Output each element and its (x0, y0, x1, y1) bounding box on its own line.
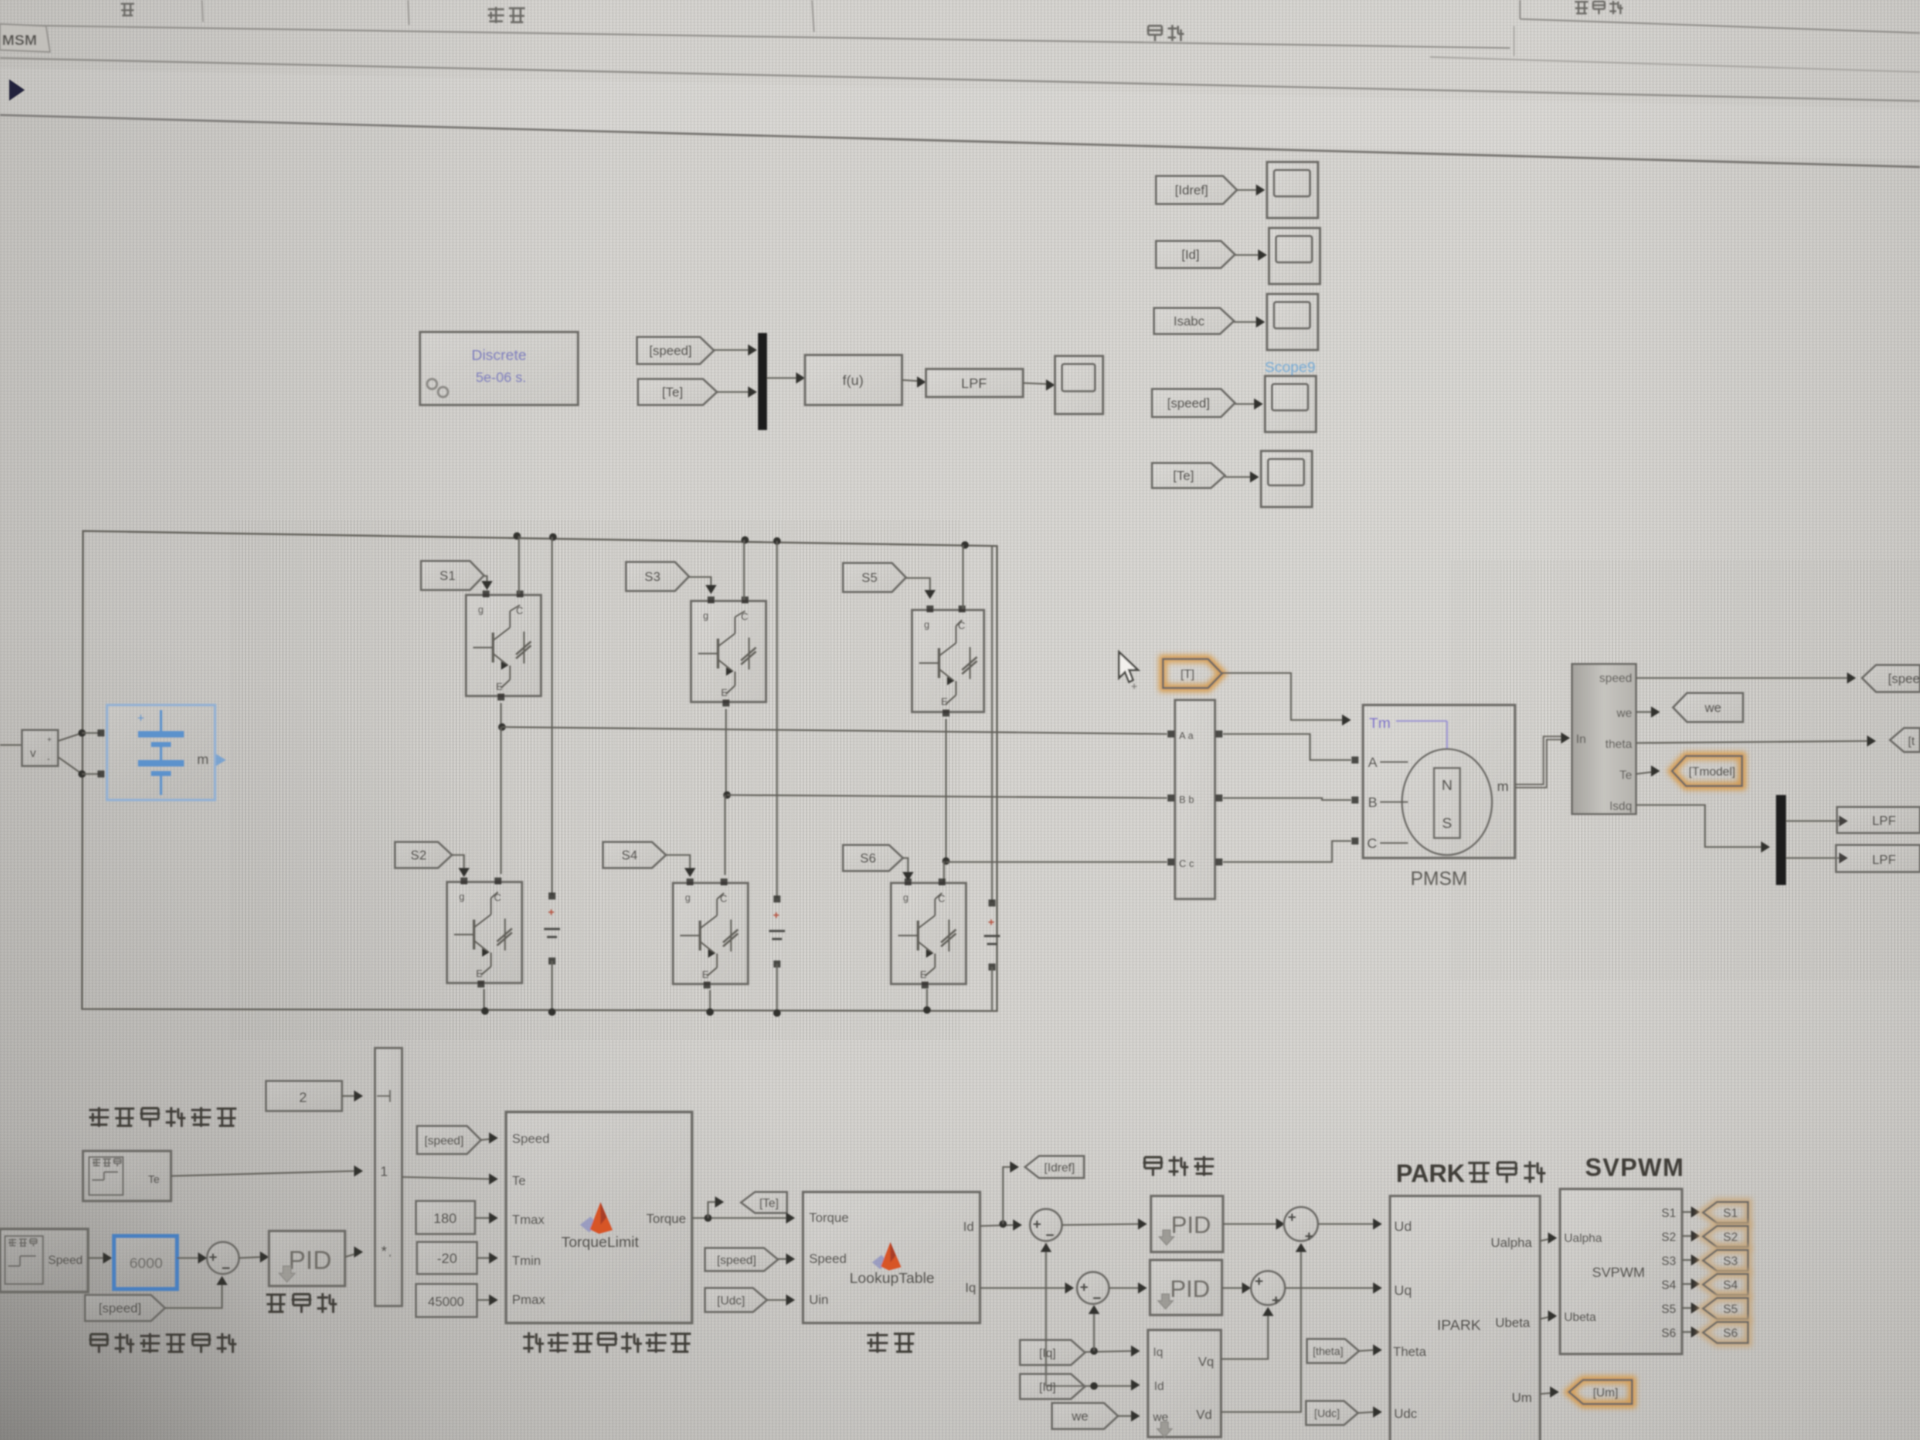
goto tag S6 (1703, 1322, 1748, 1343)
svg-text:+: + (988, 917, 994, 929)
svg-text:v: v (30, 746, 36, 760)
svg-text:[Udc]: [Udc] (1314, 1408, 1340, 1420)
svg-text:S4: S4 (1723, 1278, 1738, 1292)
svg-text:B: B (1368, 794, 1377, 810)
svg-text:[Udc]: [Udc] (717, 1293, 745, 1307)
wire Vd to sum3 (1221, 1249, 1301, 1412)
svg-text:S3: S3 (645, 569, 661, 584)
wire emitter S4 to bottom bus (709, 990, 711, 1012)
wire speed ref to constant (88, 1257, 104, 1259)
ribbon separator lines (0, 25, 1510, 48)
from tag [theta] (1307, 1339, 1359, 1363)
from tag [Te] (1152, 463, 1225, 488)
wire we out (1636, 711, 1652, 713)
wire emitter S1 to phase A node (500, 703, 502, 727)
svg-text:5e-06 s.: 5e-06 s. (476, 369, 527, 385)
svg-text:Tmin: Tmin (512, 1253, 541, 1268)
from tag [speed] to torquelimit (417, 1126, 481, 1154)
svg-text:LPF: LPF (1872, 813, 1896, 828)
wire 2 to switch (342, 1095, 355, 1097)
svg-text:S1: S1 (1661, 1206, 1676, 1220)
run button (9, 79, 25, 101)
constant block 6000 selected (114, 1236, 177, 1289)
wire Isdq to demux (1636, 805, 1762, 847)
wire into voltage sensor (0, 744, 22, 746)
wire Id to sum1 (980, 1225, 1014, 1226)
wire b to PMSM B (1223, 798, 1351, 800)
transfer block LPF 1 (1837, 807, 1920, 833)
ribbon tab label 库 (121, 3, 134, 5)
svg-text:PID: PID (288, 1245, 331, 1275)
wire sum3 to IPARK Ud (1318, 1223, 1374, 1225)
from tag S5 (843, 563, 906, 592)
svg-text:g: g (685, 893, 691, 904)
IGBT S5 (912, 610, 984, 712)
wire demux to LPF2 (1786, 857, 1840, 859)
transfer block LPF (926, 369, 1023, 397)
wire S6 out (1682, 1331, 1692, 1333)
wire phase C (946, 861, 1167, 863)
constant block -20 (417, 1242, 477, 1274)
from tag S2 (395, 842, 452, 868)
svg-text:PID: PID (1171, 1212, 1211, 1239)
svg-text:theta: theta (1605, 737, 1632, 751)
svg-text:[speed]: [speed] (424, 1133, 463, 1147)
from tag [T] highlighted (1163, 659, 1222, 688)
goto tag theta partial right edge (1890, 728, 1920, 752)
PID controller speed loop (269, 1231, 345, 1286)
svg-text:Ualpha: Ualpha (1491, 1235, 1533, 1250)
svg-text:Vq: Vq (1198, 1354, 1214, 1369)
svg-text:S4: S4 (1661, 1278, 1676, 1292)
from tag we (1052, 1403, 1118, 1429)
from tag [Idref] (1156, 176, 1237, 204)
IGBT S4 (673, 883, 748, 984)
wire to scope (1237, 189, 1257, 191)
svg-text:SVPWM: SVPWM (1592, 1264, 1645, 1280)
svg-text:we: we (1616, 706, 1633, 720)
svg-text:6000: 6000 (129, 1255, 162, 1272)
goto tag [speed] partial right edge (1862, 665, 1920, 692)
wire collector S5 to bus (962, 545, 964, 609)
wire S3 out (1682, 1259, 1692, 1261)
svg-text:S5: S5 (1723, 1302, 1738, 1316)
svg-text:[speed]: [speed] (99, 1301, 142, 1316)
svg-text:2: 2 (299, 1089, 307, 1105)
svg-text:Discrete: Discrete (471, 347, 526, 364)
IPARK block (1390, 1196, 1540, 1440)
svg-text:S2: S2 (411, 848, 427, 863)
svg-text:[Te]: [Te] (759, 1196, 778, 1210)
dc link capacitor leg3 (991, 546, 993, 902)
three-phase VI measurement block (1175, 700, 1215, 899)
label torque power limit (523, 1336, 535, 1338)
svg-text:-: - (47, 754, 50, 764)
from tag [speed] (1152, 389, 1235, 417)
svg-text:[Id]: [Id] (1039, 1380, 1056, 1394)
svg-text:[spee: [spee (1888, 671, 1920, 686)
wire to scope (1225, 476, 1251, 478)
svg-text:g: g (478, 605, 484, 616)
wire Te out (1636, 772, 1652, 774)
sum junction Uq (1251, 1271, 1285, 1305)
svg-text:we: we (1704, 700, 1722, 715)
svg-text:Ubeta: Ubeta (1564, 1310, 1596, 1324)
wire S5 out (1682, 1307, 1692, 1309)
svg-text:[Te]: [Te] (662, 385, 683, 400)
from tag [Id] (1020, 1374, 1085, 1399)
wire emitter S6 to bottom bus (926, 989, 928, 1010)
wire [T] to Tm (1222, 673, 1344, 720)
svg-text:+: + (1288, 1209, 1297, 1226)
scope block (1269, 228, 1320, 284)
wire to scope (1234, 321, 1257, 323)
wire S4 out (1682, 1283, 1692, 1285)
MATLAB function LookupTable (803, 1192, 980, 1323)
wire v to bus + (58, 733, 82, 741)
svg-text:S: S (1442, 815, 1452, 832)
svg-text:PMSM: PMSM (1411, 869, 1468, 890)
wire mux to f(u) (767, 377, 797, 379)
junction top bus (513, 532, 521, 540)
svg-text:S4: S4 (622, 848, 638, 863)
torque reference source block (83, 1151, 171, 1201)
wire a to PMSM A (1223, 734, 1351, 760)
svg-text:N: N (1442, 777, 1453, 794)
svg-text:*: * (381, 1243, 387, 1260)
svg-text:C: C (1367, 835, 1377, 851)
svg-text:A: A (1368, 754, 1378, 770)
wire phase B node to S4 collector (724, 795, 726, 875)
from tag [speed] (637, 337, 714, 364)
svg-text:Pmax: Pmax (512, 1292, 546, 1307)
wire phase A (502, 727, 1167, 734)
wire LPF to scope (1023, 383, 1047, 384)
mux bar (758, 333, 767, 430)
svg-text:Ubeta: Ubeta (1495, 1315, 1530, 1330)
svg-text:Te: Te (1619, 768, 1632, 782)
svg-text:Theta: Theta (1393, 1344, 1427, 1359)
svg-text:S6: S6 (1723, 1326, 1738, 1340)
IGBT S3 (691, 601, 766, 702)
wire switch out to Te port (402, 1177, 490, 1179)
PMSM machine block (1363, 705, 1515, 858)
from tag [Udc] to ipark (1306, 1401, 1358, 1425)
ribbon tab label 检查器 (1575, 1, 1588, 3)
wire emitter S2 to bottom bus (483, 989, 485, 1011)
svg-text:LookupTable: LookupTable (849, 1270, 934, 1287)
svg-text:g: g (903, 893, 909, 904)
wire to scope (1235, 403, 1255, 405)
svg-text:m: m (1497, 778, 1509, 794)
svg-text:Id: Id (1154, 1379, 1164, 1393)
wire S2 to gate (452, 855, 464, 870)
svg-text:S3: S3 (1661, 1254, 1676, 1268)
ribbon tab label 仿真 (1148, 25, 1162, 27)
label current loop (1145, 1156, 1162, 1158)
sum junction Ud (1284, 1207, 1318, 1241)
svg-text:+: + (1305, 1228, 1314, 1245)
wire S4 to gate (666, 855, 690, 870)
goto tag we (1673, 693, 1743, 722)
from tag [Iq] (1020, 1340, 1085, 1365)
dc link capacitor leg1 (551, 537, 553, 895)
svg-text:+: + (209, 1249, 218, 1266)
voltage measurement v (22, 730, 58, 766)
svg-text:Te: Te (512, 1173, 526, 1188)
wire PID to switch (345, 1254, 355, 1257)
wire Ubeta to SVPWM (1540, 1317, 1549, 1319)
wire Te to mux (717, 391, 749, 393)
svg-text:−: − (1093, 1290, 1102, 1307)
IGBT S2 (447, 882, 522, 983)
scope block (1265, 376, 1316, 432)
IGBT S1 (466, 595, 541, 696)
dc link capacitor leg2 (776, 541, 778, 898)
sum junction q axis (1077, 1272, 1109, 1304)
decoupling block (1148, 1330, 1221, 1437)
svg-text:S6: S6 (1661, 1326, 1676, 1340)
from tag S3 (626, 562, 689, 591)
svg-text:Iq: Iq (965, 1280, 976, 1295)
wire sum1 to PID1 (1062, 1224, 1139, 1225)
svg-text:[Idref]: [Idref] (1175, 183, 1208, 198)
wire f(u) to LPF (902, 380, 918, 381)
wire sum4 to IPARK Uq (1285, 1287, 1374, 1289)
scope block (1055, 356, 1103, 414)
svg-text:S6: S6 (860, 851, 876, 866)
svg-text:g: g (924, 620, 930, 631)
svg-text:C c: C c (1179, 859, 1194, 870)
svg-text:B b: B b (1179, 795, 1194, 806)
svg-text:g: g (703, 611, 709, 622)
from tag Isabc (1154, 308, 1234, 334)
svg-text:Vd: Vd (1196, 1407, 1212, 1422)
svg-text:+: + (1131, 681, 1137, 693)
wire bus to battery - (82, 773, 100, 775)
wire S1 out (1682, 1211, 1692, 1213)
from tag S1 (421, 561, 484, 590)
wire phase A node to S2 collector (500, 727, 502, 874)
svg-text:+: + (137, 710, 145, 725)
constant block 180 (416, 1201, 475, 1234)
svg-text:[Um]: [Um] (1593, 1385, 1618, 1399)
svg-text:LPF: LPF (1872, 852, 1896, 867)
sum junction speed loop (207, 1242, 239, 1274)
from tag [Udc] to lookup (705, 1288, 767, 1312)
svg-text:speed: speed (1599, 671, 1632, 685)
svg-text:180: 180 (433, 1210, 457, 1226)
svg-text:S5: S5 (1661, 1302, 1676, 1316)
svg-text:IPARK: IPARK (1437, 1317, 1481, 1334)
scope block (1261, 451, 1312, 507)
goto tag [Idref] (1025, 1156, 1084, 1178)
svg-text:−: − (222, 1260, 231, 1277)
svg-text:[Id]: [Id] (1181, 247, 1199, 262)
wire demux to LPF1 (1786, 820, 1840, 822)
goto tag S4 (1703, 1274, 1748, 1295)
goto tag S3 (1703, 1250, 1748, 1271)
wire collector S1 to bus (518, 536, 520, 594)
svg-text:PID: PID (1170, 1276, 1210, 1303)
svg-text:f(u): f(u) (843, 372, 864, 388)
svg-text:[T]: [T] (1181, 667, 1195, 681)
svg-text:+: + (1080, 1279, 1089, 1296)
svg-text:Speed: Speed (48, 1253, 83, 1267)
dc voltage source battery (107, 705, 215, 800)
svg-text:−: − (1046, 1227, 1055, 1244)
wire phase B (727, 795, 1167, 798)
svg-text:+: + (1033, 1216, 1042, 1233)
svg-text:[t: [t (1908, 734, 1915, 748)
svg-text:[speed]: [speed] (649, 343, 692, 358)
svg-text:45000: 45000 (428, 1294, 464, 1309)
svg-text:S1: S1 (1723, 1206, 1738, 1220)
svg-text:TorqueLimit: TorqueLimit (561, 1234, 639, 1251)
from tag S4 (603, 842, 666, 868)
svg-text:PARK: PARK (1396, 1160, 1465, 1188)
wire to Speed port (481, 1139, 490, 1140)
wire branch to Idref goto (1003, 1167, 1011, 1224)
svg-text:Torque: Torque (809, 1210, 849, 1225)
bus selector block (1572, 664, 1636, 814)
from tag S6 (843, 845, 903, 871)
wire emitter S3 to phase B node (725, 709, 727, 795)
wire v to bus - (58, 757, 82, 774)
svg-text:[theta]: [theta] (1313, 1346, 1344, 1358)
wire S2 out (1682, 1235, 1692, 1237)
constant block 45000 (416, 1284, 477, 1317)
wire Iq to sum2 (980, 1287, 1066, 1289)
speed reference source block (0, 1229, 88, 1292)
wire Vq to sum4 (1221, 1313, 1268, 1359)
svg-text:S2: S2 (1661, 1230, 1676, 1244)
wire Torque out (692, 1217, 786, 1219)
constant block 2 (266, 1081, 342, 1111)
svg-text:S2: S2 (1723, 1230, 1738, 1244)
svg-text:[Idref]: [Idref] (1044, 1160, 1075, 1174)
svg-text:S3: S3 (1723, 1254, 1738, 1268)
svg-text:Tmax: Tmax (512, 1212, 545, 1227)
wire S1 to gate (484, 576, 487, 583)
switch control mark (377, 1095, 390, 1097)
goto tag [Um] highlighted (1569, 1380, 1632, 1404)
ribbon vertical separators (202, 0, 203, 22)
ribbon tab label 准备 (488, 8, 504, 10)
svg-text:Um: Um (1512, 1390, 1532, 1405)
svg-text:Uin: Uin (809, 1292, 829, 1307)
svg-text:+: + (773, 910, 779, 922)
wire we to decouple (1118, 1415, 1132, 1417)
svg-text:Scope9: Scope9 (1265, 359, 1316, 376)
svg-text:[Te]: [Te] (1173, 468, 1194, 483)
wire S3 to gate (689, 577, 711, 587)
wire theta out (1636, 741, 1868, 743)
svg-text:S1: S1 (440, 568, 456, 583)
wire emitter S5 to phase C node (945, 719, 947, 861)
svg-text:': ' (389, 1253, 391, 1265)
from tag [speed] to lookup (705, 1248, 778, 1271)
fcn block f(u) (805, 355, 902, 405)
svg-text:Uq: Uq (1394, 1282, 1412, 1298)
goto tag S2 (1703, 1226, 1748, 1247)
scope block (1267, 162, 1318, 218)
goto tag S1 (1703, 1202, 1748, 1223)
powergui block Discrete 5e-06 s (420, 332, 578, 405)
wire speed feedback to sum (165, 1282, 222, 1308)
wire sum2 to PID2 (1109, 1287, 1139, 1289)
svg-text:[speed]: [speed] (717, 1253, 756, 1267)
PID controller d axis (1151, 1196, 1223, 1252)
wire dc bus enclosure box (82, 531, 997, 1011)
svg-text:A a: A a (1179, 731, 1194, 742)
demux bar (1776, 795, 1786, 885)
model tab PMSM (0, 24, 50, 52)
svg-text:Speed: Speed (809, 1251, 847, 1266)
svg-text:In: In (1576, 732, 1586, 746)
wire 6000 to sum (177, 1257, 199, 1259)
bus wire m to measurements (1515, 736, 1563, 784)
wire S6 to gate (903, 858, 908, 874)
multiport switch (375, 1048, 402, 1306)
wire speed to mux (714, 349, 749, 351)
svg-text:MSM: MSM (2, 32, 37, 49)
svg-text:we: we (1071, 1409, 1089, 1424)
wire phase C node to S6 collector (943, 861, 945, 883)
goto tag [Te] (741, 1192, 787, 1213)
svg-text:m: m (197, 751, 209, 767)
wire to scope (1235, 254, 1259, 256)
scope block (1267, 294, 1318, 350)
wire branch to Te goto (708, 1202, 716, 1218)
wire Id feedback vertical (1045, 1243, 1047, 1386)
inspector panel border (1519, 0, 1521, 19)
svg-text:Te: Te (148, 1174, 160, 1186)
svg-text:[speed]: [speed] (1167, 396, 1210, 411)
svg-text:+: + (47, 735, 52, 744)
svg-text:SVPWM: SVPWM (1585, 1154, 1684, 1182)
from tag [Te] (638, 379, 717, 405)
wire Ualpha to SVPWM (1540, 1239, 1549, 1241)
svg-text:Ualpha: Ualpha (1564, 1231, 1602, 1245)
wire c to PMSM C (1223, 841, 1351, 862)
svg-text:Torque: Torque (646, 1211, 686, 1226)
from tag [Id] (1156, 241, 1235, 268)
wire Iq feedback (1085, 1351, 1132, 1352)
transfer block LPF 2 (1836, 845, 1920, 872)
wire torque ref to switch (171, 1171, 355, 1176)
wire S5 to gate (906, 578, 930, 592)
svg-text:Id: Id (963, 1219, 974, 1234)
svg-text:g: g (459, 892, 465, 903)
wire sum to PID (239, 1257, 261, 1258)
wire Iq feedback to sum2 (1093, 1311, 1095, 1351)
svg-text:[Tmodel]: [Tmodel] (1689, 764, 1736, 778)
svg-text:LPF: LPF (961, 375, 987, 391)
svg-text:S5: S5 (862, 570, 878, 585)
svg-text:-20: -20 (437, 1250, 457, 1266)
svg-text:+: + (548, 907, 554, 919)
wire speed out (1636, 677, 1848, 679)
svg-text:Speed: Speed (512, 1131, 550, 1146)
svg-text:+: + (1272, 1292, 1281, 1309)
wire PID2 to sum4 (1222, 1287, 1243, 1289)
PID controller q axis (1150, 1260, 1222, 1315)
svg-text:Udc: Udc (1394, 1406, 1418, 1421)
svg-text:Isdq: Isdq (1609, 799, 1632, 813)
wire Um out (1540, 1393, 1551, 1394)
goto tag S5 (1703, 1298, 1748, 1319)
